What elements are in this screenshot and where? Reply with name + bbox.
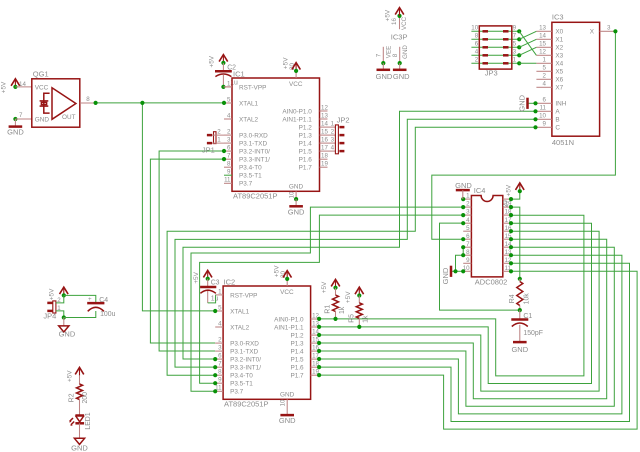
wire IC4 pin10 ground bbox=[451, 270, 463, 272]
svg-text:IC1: IC1 bbox=[233, 70, 245, 79]
svg-text:A: A bbox=[555, 109, 560, 116]
svg-text:150pF: 150pF bbox=[523, 330, 543, 337]
IC4 pin 9 bbox=[463, 262, 471, 264]
wire C3 to IC2 RST bbox=[208, 295, 216, 303]
svg-text:1: 1 bbox=[227, 80, 231, 87]
svg-text:AT89C2051P: AT89C2051P bbox=[233, 192, 277, 201]
svg-text:XTAL2: XTAL2 bbox=[239, 116, 259, 123]
svg-text:3: 3 bbox=[331, 137, 335, 144]
wire JP3 pin7 to IC3 X0 bbox=[519, 31, 536, 39]
IC4 pin 8 bbox=[463, 254, 471, 256]
wire IC4 pin4 to RC junction bbox=[440, 223, 520, 310]
svg-text:9: 9 bbox=[218, 377, 222, 384]
IC2 pin 4 XTAL2 bbox=[215, 326, 223, 328]
IC2 pin 17 P1.5 bbox=[311, 358, 320, 360]
svg-text:20: 20 bbox=[503, 200, 510, 207]
IC2 pin 11 P3.7 bbox=[215, 390, 223, 392]
svg-text:5: 5 bbox=[218, 304, 222, 311]
svg-text:VCC: VCC bbox=[35, 84, 49, 91]
svg-text:GND: GND bbox=[59, 329, 76, 338]
wire JP4 pin2 to +5V bbox=[56, 295, 64, 303]
svg-text:1: 1 bbox=[217, 137, 221, 144]
IC2 pin 16 P1.4 bbox=[311, 350, 320, 352]
svg-text:X0: X0 bbox=[555, 29, 563, 36]
svg-text:GND: GND bbox=[455, 181, 472, 190]
IC1 pin 14 P1.2 bbox=[320, 126, 328, 128]
svg-text:8: 8 bbox=[227, 161, 231, 168]
svg-text:ADC0802: ADC0802 bbox=[475, 278, 508, 287]
svg-text:C1: C1 bbox=[523, 313, 532, 320]
svg-text:14: 14 bbox=[539, 33, 546, 40]
IC1 pin 20 VCC bbox=[295, 71, 297, 78]
IC4 pin 14 bbox=[503, 246, 511, 248]
junction IC1 XTAL1 bbox=[222, 101, 226, 105]
svg-text:9: 9 bbox=[513, 25, 517, 32]
svg-text:8: 8 bbox=[392, 53, 399, 57]
wire data net IC2 P1.0 to IC4 pin18 bbox=[319, 215, 584, 376]
IC2 pin 20 VCC bbox=[286, 279, 288, 286]
svg-text:P3.3-INT1/: P3.3-INT1/ bbox=[230, 365, 261, 372]
IC4 pin 17 bbox=[503, 222, 511, 224]
svg-text:GND: GND bbox=[376, 72, 393, 81]
IC3 pin 2 X6 bbox=[536, 78, 552, 80]
wire net WR IC4 pin2 to IC2 P3.7 bbox=[191, 207, 463, 391]
svg-text:X1: X1 bbox=[555, 37, 563, 44]
svg-text:4: 4 bbox=[331, 145, 335, 152]
IC3 pin 1 X4 bbox=[536, 62, 552, 64]
junction dots IC3 control pins bbox=[533, 101, 537, 105]
IC2 pin 12 AIN0-P1.0 bbox=[311, 318, 320, 320]
svg-text:+5V: +5V bbox=[209, 55, 216, 67]
svg-text:AT89C2051P: AT89C2051P bbox=[224, 400, 268, 409]
IC4 pin 18 bbox=[503, 214, 511, 216]
svg-text:INH: INH bbox=[555, 101, 566, 108]
svg-text:3: 3 bbox=[607, 25, 611, 32]
wire net A IC3.A to IC2 P3.2 bbox=[183, 111, 536, 359]
wire clock net QG1 OUT to IC1 XTAL1 bbox=[96, 102, 224, 104]
svg-text:P1.6: P1.6 bbox=[290, 365, 304, 372]
IC1 pin 7 P3.3-INT1/ bbox=[224, 158, 232, 160]
svg-text:14: 14 bbox=[321, 121, 328, 128]
svg-text:4: 4 bbox=[218, 320, 222, 327]
svg-text:2: 2 bbox=[227, 129, 231, 136]
svg-text:RST-VPP: RST-VPP bbox=[239, 84, 266, 91]
svg-text:GND: GND bbox=[288, 207, 305, 216]
wire IC4 pin8 to ground rail bbox=[456, 255, 464, 271]
wire data net IC2 P1.2 to IC4 pin16 bbox=[319, 231, 599, 391]
capacitor C4 100u bbox=[87, 302, 104, 305]
svg-text:P1.2: P1.2 bbox=[299, 125, 313, 132]
svg-text:19: 19 bbox=[321, 161, 328, 168]
IC2 pin 18 P1.6 bbox=[311, 366, 320, 368]
IC2 pin 19 P1.7 bbox=[311, 374, 320, 376]
junction IC1 P3.2 bbox=[222, 149, 226, 153]
svg-text:7: 7 bbox=[19, 112, 23, 119]
svg-text:3: 3 bbox=[227, 137, 231, 144]
svg-text:15: 15 bbox=[539, 41, 546, 48]
svg-text:1: 1 bbox=[331, 121, 335, 128]
svg-text:+5V: +5V bbox=[282, 57, 289, 69]
QG1 OUT pin 8 bbox=[80, 102, 96, 104]
LED1 bbox=[69, 412, 92, 438]
wire data net IC2 P1.7 to IC4 pin11 bbox=[319, 271, 637, 429]
svg-text:X2: X2 bbox=[555, 45, 563, 52]
IC4 pin 10 bbox=[463, 270, 471, 272]
svg-text:OUT: OUT bbox=[62, 114, 76, 121]
svg-text:AIN1-P1.1: AIN1-P1.1 bbox=[274, 324, 304, 331]
junction dots IC2 pins bbox=[213, 309, 217, 313]
IC1 pin 12 AIN0-P1.0 bbox=[320, 110, 328, 112]
IC2 pin 1 RST-VPP bbox=[215, 294, 223, 296]
ground at QG1 bbox=[13, 117, 17, 121]
IC4 pin 15 bbox=[503, 238, 511, 240]
svg-text:JP3: JP3 bbox=[485, 69, 498, 78]
wire IC4 pin19 down to R4 bbox=[511, 207, 520, 279]
svg-text:10: 10 bbox=[471, 25, 478, 32]
wire net B IC3.B to IC2 P3.3 bbox=[175, 119, 536, 367]
svg-text:AIN0-P1.0: AIN0-P1.0 bbox=[274, 316, 304, 323]
wire +5V rail to C4 bbox=[64, 295, 96, 303]
junction dots IC4 left pins bbox=[461, 197, 465, 201]
svg-text:GND: GND bbox=[71, 444, 88, 452]
capacitor C1 150pF bbox=[519, 310, 521, 319]
svg-text:6: 6 bbox=[218, 353, 222, 360]
svg-text:7: 7 bbox=[513, 33, 517, 40]
svg-text:17: 17 bbox=[321, 145, 328, 152]
IC4 pin 2 bbox=[463, 206, 471, 208]
svg-text:1: 1 bbox=[218, 288, 222, 295]
svg-text:6: 6 bbox=[227, 145, 231, 152]
IC1 pin 3 P3.1-TXD bbox=[224, 142, 232, 144]
IC1 pin 10 GND bbox=[295, 191, 297, 199]
svg-text:X4: X4 bbox=[555, 61, 563, 68]
svg-text:16: 16 bbox=[391, 18, 398, 25]
IC2 pin 8 P3.4-T0 bbox=[215, 374, 223, 376]
svg-text:7: 7 bbox=[466, 241, 470, 248]
svg-text:1k: 1k bbox=[363, 315, 370, 323]
svg-text:13: 13 bbox=[539, 25, 546, 32]
svg-text:P1.5: P1.5 bbox=[290, 357, 304, 364]
svg-text:XTAL1: XTAL1 bbox=[239, 100, 259, 107]
svg-text:7: 7 bbox=[227, 153, 231, 160]
wire data net IC2 P1.3 to IC4 pin15 bbox=[319, 239, 607, 398]
svg-text:R2: R2 bbox=[68, 393, 75, 402]
capacitor C3 1u bbox=[207, 279, 209, 287]
IC1 pin 19 P1.7 bbox=[320, 166, 328, 168]
svg-text:P3.5-T1: P3.5-T1 bbox=[230, 381, 253, 388]
power symbol IC3P VEE pin 7 bbox=[382, 47, 384, 63]
IC3 pin 12 X3 bbox=[536, 54, 552, 56]
ground at LED1 bbox=[74, 438, 84, 444]
op IC1 AT89C2051P bbox=[232, 70, 320, 201]
svg-text:11: 11 bbox=[540, 105, 547, 112]
svg-text:IC2: IC2 bbox=[224, 277, 236, 286]
svg-text:5: 5 bbox=[466, 225, 470, 232]
wire IC4 pin20 to +5V bbox=[511, 191, 520, 199]
wire data net IC2 P1.1 to IC4 pin17 bbox=[319, 223, 591, 383]
IC3 pin 14 X1 bbox=[536, 38, 552, 40]
IC4 pin 1 bbox=[463, 198, 471, 200]
svg-text:C4: C4 bbox=[99, 297, 108, 304]
wire C2 to IC1 RST bbox=[223, 86, 232, 88]
resistor R1 1k bbox=[335, 288, 337, 295]
IC4 pin 4 bbox=[463, 222, 471, 224]
wire QG1 VCC pin bbox=[15, 86, 31, 88]
wire JP3 pin3 to IC3 X2 bbox=[519, 47, 536, 55]
svg-text:P1.3: P1.3 bbox=[290, 341, 304, 348]
IC1 pin 13 AIN1-P1.1 bbox=[320, 118, 328, 120]
connector JP3 bbox=[471, 25, 521, 78]
svg-text:C3: C3 bbox=[211, 279, 220, 286]
svg-text:GND: GND bbox=[280, 392, 295, 399]
svg-text:P1.7: P1.7 bbox=[299, 165, 313, 172]
multiplexer IC3 4051N bbox=[552, 13, 600, 147]
+5V supply at R1 bbox=[331, 279, 340, 286]
svg-text:GND: GND bbox=[518, 94, 527, 111]
wire data net IC2 P1.6 to IC4 pin12 bbox=[319, 263, 629, 421]
+5V supply at IC2 VCC bbox=[283, 271, 292, 278]
IC2 pin 7 P3.3-INT1/ bbox=[215, 366, 223, 368]
svg-text:100u: 100u bbox=[100, 311, 115, 318]
IC2 pin 14 P1.2 bbox=[311, 334, 320, 336]
svg-text:P3.2-INT0/: P3.2-INT0/ bbox=[230, 357, 261, 364]
ground left of IC4 pin10 bbox=[450, 266, 453, 277]
svg-text:3: 3 bbox=[513, 49, 517, 56]
svg-text:10: 10 bbox=[280, 399, 287, 406]
svg-text:P3.0-RXD: P3.0-RXD bbox=[230, 341, 259, 348]
svg-text:1: 1 bbox=[543, 57, 547, 64]
svg-text:16: 16 bbox=[321, 137, 328, 144]
svg-text:P1.4: P1.4 bbox=[299, 141, 313, 148]
svg-text:P3.7: P3.7 bbox=[230, 389, 244, 396]
svg-text:4: 4 bbox=[227, 112, 231, 119]
svg-text:5: 5 bbox=[227, 96, 231, 103]
svg-text:14: 14 bbox=[19, 81, 26, 88]
svg-text:X5: X5 bbox=[555, 69, 563, 76]
wire gnd node to C4 bottom bbox=[64, 311, 96, 318]
svg-text:GND: GND bbox=[511, 345, 528, 354]
svg-text:5: 5 bbox=[513, 41, 517, 48]
oscillator QG1 bbox=[32, 69, 80, 127]
IC3 pin 11 A bbox=[536, 110, 552, 112]
svg-text:IC3: IC3 bbox=[552, 13, 564, 22]
svg-text:R5: R5 bbox=[349, 314, 356, 323]
op IC2 AT89C2051P bbox=[223, 277, 311, 408]
wire JP3 pin1 to IC3 X4 bbox=[519, 62, 536, 64]
wire IC4 pin7 to pin8 bbox=[462, 247, 464, 255]
svg-text:+5V: +5V bbox=[345, 291, 352, 303]
IC4 pin 7 bbox=[463, 246, 471, 248]
svg-text:3: 3 bbox=[218, 345, 222, 352]
IC3 pin 3 X output bbox=[600, 30, 616, 32]
+5V supply at R5 bbox=[355, 287, 364, 294]
wire data net IC2 P1.4 to IC4 pin14 bbox=[319, 247, 614, 406]
svg-text:2: 2 bbox=[218, 337, 222, 344]
svg-text:IC4: IC4 bbox=[474, 186, 486, 195]
wire IC1 P3.3 to IC2 P3.0 bbox=[150, 159, 224, 343]
svg-text:JP4: JP4 bbox=[43, 311, 56, 320]
svg-text:7: 7 bbox=[375, 53, 382, 57]
svg-text:12: 12 bbox=[539, 49, 546, 56]
svg-text:AIN0-P1.0: AIN0-P1.0 bbox=[282, 108, 312, 115]
IC2 pin 5 XTAL1 bbox=[215, 310, 223, 312]
svg-text:+5V: +5V bbox=[505, 184, 512, 196]
svg-text:4: 4 bbox=[475, 49, 479, 56]
connector JP2 bbox=[328, 116, 350, 154]
ground at IC1 bbox=[294, 197, 298, 201]
+5V supply at JP4 bbox=[60, 287, 69, 294]
svg-text:P1.5: P1.5 bbox=[299, 149, 313, 156]
svg-text:GND: GND bbox=[7, 128, 24, 137]
IC1 pin 1 RST-VPP bbox=[224, 86, 232, 88]
svg-text:+5V: +5V bbox=[321, 281, 328, 293]
svg-text:8: 8 bbox=[475, 33, 479, 40]
svg-text:+5V: +5V bbox=[66, 370, 73, 382]
svg-text:GND: GND bbox=[402, 45, 409, 59]
resistor R5 1k bbox=[358, 296, 360, 303]
power symbol IC3P VCC pin 16 bbox=[399, 16, 401, 29]
IC4 pin 5 bbox=[463, 230, 471, 232]
IC3 pin 13 X0 bbox=[536, 30, 552, 32]
resistor R4 10k bbox=[518, 277, 522, 281]
connector JP1 bbox=[202, 129, 224, 155]
svg-text:6: 6 bbox=[475, 41, 479, 48]
svg-text:VCC: VCC bbox=[401, 16, 408, 30]
IC1 pin 5 XTAL1 bbox=[224, 102, 232, 104]
wire JP4 pin1 to gnd node bbox=[56, 311, 64, 318]
junction IC1 P3.3 bbox=[222, 157, 226, 161]
IC3 pin 4 X7 bbox=[536, 86, 552, 88]
svg-text:C: C bbox=[555, 125, 560, 132]
svg-text:1k: 1k bbox=[339, 306, 346, 314]
svg-text:P1.6: P1.6 bbox=[299, 157, 313, 164]
capacitor C2 bbox=[222, 63, 224, 71]
svg-text:+5V: +5V bbox=[273, 265, 280, 277]
svg-text:P3.1-TXD: P3.1-TXD bbox=[230, 349, 258, 356]
svg-text:X7: X7 bbox=[555, 85, 563, 92]
svg-text:12: 12 bbox=[321, 104, 328, 111]
+5V supply at QG1 bbox=[11, 79, 20, 86]
svg-text:8: 8 bbox=[86, 96, 90, 103]
svg-text:10: 10 bbox=[289, 191, 296, 198]
svg-text:P3.0-RXD: P3.0-RXD bbox=[239, 133, 268, 140]
wire net X 4051 output to IC4 pin6 bbox=[432, 31, 616, 239]
svg-text:4051N: 4051N bbox=[552, 138, 574, 147]
IC2 pin 2 P3.0-RXD bbox=[215, 342, 223, 344]
svg-text:VCC: VCC bbox=[289, 81, 303, 88]
svg-text:+5V: +5V bbox=[49, 288, 56, 300]
svg-text:JP1: JP1 bbox=[202, 145, 215, 154]
ground at IC2 bbox=[280, 414, 294, 417]
IC1 pin 18 P1.6 bbox=[320, 158, 328, 160]
svg-text:8: 8 bbox=[218, 369, 222, 376]
wire IC3 INH to GND label bbox=[528, 102, 537, 104]
svg-text:9: 9 bbox=[543, 121, 547, 128]
wire data net IC2 P1.5 to IC4 pin13 bbox=[319, 255, 622, 414]
IC3 pin 9 C bbox=[536, 126, 552, 128]
svg-text:1u: 1u bbox=[211, 295, 219, 302]
svg-text:18: 18 bbox=[321, 153, 328, 160]
svg-text:P1.2: P1.2 bbox=[290, 333, 304, 340]
IC4 pin 19 bbox=[503, 206, 511, 208]
svg-text:X: X bbox=[590, 29, 595, 36]
IC1 pin 6 P3.2-INT0/ bbox=[224, 150, 232, 152]
svg-text:9: 9 bbox=[466, 257, 470, 264]
svg-text:P1.7: P1.7 bbox=[290, 373, 304, 380]
IC2 pin 13 AIN1-P1.1 bbox=[311, 326, 320, 328]
resistor R2 200 bbox=[79, 375, 81, 384]
IC3 pin 6 INH bbox=[536, 102, 552, 104]
IC2 pin 10 GND bbox=[286, 399, 288, 415]
svg-text:2: 2 bbox=[466, 201, 470, 208]
IC3 pin 10 B bbox=[536, 118, 552, 120]
IC3 pin 15 X2 bbox=[536, 46, 552, 48]
IC1 pin 15 P1.3 bbox=[320, 134, 328, 136]
svg-text:VCC: VCC bbox=[280, 289, 294, 296]
svg-text:X6: X6 bbox=[555, 77, 563, 84]
svg-text:GND: GND bbox=[279, 416, 296, 425]
svg-text:15: 15 bbox=[321, 129, 328, 136]
svg-text:P3.5-T1: P3.5-T1 bbox=[239, 173, 262, 180]
IC4 pin 11 bbox=[503, 270, 511, 272]
svg-text:P3.2-INT0/: P3.2-INT0/ bbox=[239, 149, 270, 156]
svg-text:P3.7: P3.7 bbox=[239, 181, 253, 188]
ground label at IC3 INH bbox=[526, 98, 529, 109]
ground under C1 bbox=[513, 341, 527, 344]
svg-text:P3.3-INT1/: P3.3-INT1/ bbox=[239, 157, 270, 164]
svg-text:10: 10 bbox=[539, 113, 546, 120]
IC1 pin 17 P1.5 bbox=[320, 150, 328, 152]
IC4 pin 16 bbox=[503, 230, 511, 232]
IC1 pin 4 XTAL2 bbox=[224, 118, 232, 120]
svg-text:4: 4 bbox=[466, 217, 470, 224]
IC3 pin 5 X5 bbox=[536, 70, 552, 72]
wire net RD IC4 pin3 to IC2 P3.5 bbox=[200, 215, 464, 383]
IC2 pin 6 P3.2-INT0/ bbox=[215, 358, 223, 360]
wire JP3 pin5 to IC3 X1 bbox=[519, 39, 536, 47]
svg-text:200: 200 bbox=[82, 392, 89, 404]
wire JP3 pin9 to IC3 X3 bbox=[519, 31, 536, 55]
svg-text:2: 2 bbox=[543, 73, 547, 80]
svg-text:1: 1 bbox=[466, 193, 470, 200]
IC1 pin 2 P3.0-RXD bbox=[224, 134, 232, 136]
svg-text:X3: X3 bbox=[555, 53, 563, 60]
svg-text:2: 2 bbox=[217, 129, 221, 136]
svg-text:JP2: JP2 bbox=[337, 116, 350, 125]
svg-text:GND: GND bbox=[289, 184, 304, 191]
svg-text:GND: GND bbox=[441, 267, 450, 284]
ground at JP4 bbox=[63, 318, 65, 326]
svg-text:+5V: +5V bbox=[0, 81, 7, 93]
junction clock net bbox=[140, 101, 144, 105]
svg-text:4: 4 bbox=[543, 81, 547, 88]
svg-text:1: 1 bbox=[513, 57, 517, 64]
IC4 pin 6 bbox=[463, 238, 471, 240]
svg-text:GND: GND bbox=[393, 72, 410, 81]
svg-text:P1.3: P1.3 bbox=[299, 133, 313, 140]
svg-text:AIN1-P1.1: AIN1-P1.1 bbox=[282, 116, 312, 123]
svg-text:P1.4: P1.4 bbox=[290, 349, 304, 356]
svg-text:7: 7 bbox=[218, 361, 222, 368]
wire net C IC3.C to IC2 P3.4 bbox=[167, 127, 535, 375]
+5V supply at IC4 pin20 bbox=[516, 183, 525, 190]
IC2 pin 9 P3.5-T1 bbox=[215, 382, 223, 384]
svg-text:+5V: +5V bbox=[193, 271, 200, 283]
+5V supply at IC1 VCC bbox=[292, 63, 301, 70]
svg-text:10k: 10k bbox=[524, 293, 531, 305]
svg-text:11: 11 bbox=[224, 177, 231, 184]
svg-text:IC3P: IC3P bbox=[391, 32, 408, 41]
